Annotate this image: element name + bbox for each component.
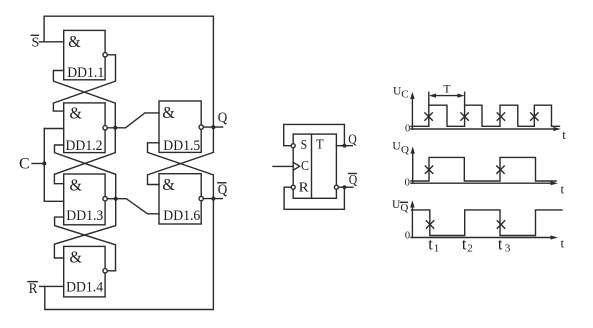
- svg-text:t: t: [462, 235, 467, 254]
- chart Uc label: [393, 85, 409, 100]
- svg-text:0: 0: [405, 231, 410, 242]
- svg-text:R: R: [299, 181, 310, 196]
- wire DD1.6 output to Q-bar: [203, 198, 222, 200]
- wire DD1.2 output down to DD1.3 input (cross): [54, 128, 115, 184]
- wire DD1.4 output stub: [107, 270, 115, 272]
- wire DD1.2 output up to DD1.1 input (cross): [53, 71, 115, 128]
- svg-text:&: &: [162, 103, 174, 122]
- wire C to DD1.3 input: [44, 200, 63, 202]
- node Q junction (T symbol): [343, 144, 347, 148]
- svg-text:t: t: [561, 182, 565, 197]
- chart Uc y-axis: [410, 92, 414, 129]
- chart Uqbar label overline: [400, 201, 407, 203]
- wire Q feedback to S: [284, 124, 345, 145]
- svg-text:DD1.6: DD1.6: [163, 208, 200, 224]
- gate DD1.5: [159, 101, 203, 154]
- gate DD1.2: [64, 103, 108, 154]
- pin C dynamic input triangle: [294, 163, 300, 170]
- svg-text:&: &: [70, 175, 82, 194]
- svg-text:Q: Q: [218, 182, 228, 198]
- svg-text:&: &: [70, 104, 82, 123]
- wire DD1.3 output stub: [107, 198, 115, 200]
- chart Uc x-mark 3: [497, 113, 504, 120]
- wire Q-bar up to DD1.5 input (cross): [148, 143, 214, 199]
- wire DD1.2 output to DD1.5 input: [115, 113, 159, 128]
- chart Uq x-mark 2: [497, 166, 504, 173]
- chart Uqbar y-axis: [410, 200, 414, 237]
- chart Uq waveform: [411, 157, 556, 181]
- wire Q output: [336, 145, 352, 147]
- svg-text:S: S: [32, 35, 40, 50]
- chart Uqbar x-axis: [411, 235, 558, 239]
- wire Q-bar output: [338, 186, 352, 188]
- gate DD1.1: [64, 30, 108, 81]
- svg-text:Q: Q: [349, 173, 358, 188]
- chart Uqbar waveform: [412, 210, 563, 236]
- T flip-flop U1 box: [293, 134, 336, 198]
- wire DD1.2 output stub: [107, 127, 115, 129]
- svg-text:T: T: [316, 138, 324, 153]
- wire Q-bar overline (T symbol): [349, 173, 357, 175]
- pin R inversion circle: [291, 185, 295, 189]
- wire Q-bar feedback to R: [284, 187, 344, 209]
- gate DD1.3: [64, 174, 108, 225]
- chart Uq x-axis: [411, 181, 558, 185]
- pin S inversion circle: [291, 144, 295, 148]
- wire top feedback Q to S input: [44, 16, 213, 127]
- svg-text:C: C: [19, 156, 30, 173]
- chart Uc period tick 1: [428, 92, 430, 105]
- svg-text:t: t: [561, 236, 565, 251]
- chart Uc waveform: [411, 105, 560, 126]
- svg-text:R: R: [29, 281, 38, 297]
- svg-text:2: 2: [467, 242, 473, 254]
- node t3 label: [498, 235, 511, 255]
- node Q-bar junction: [211, 197, 215, 201]
- svg-text:&: &: [70, 248, 82, 267]
- node DD1.3 output junction: [114, 197, 118, 201]
- chart Uq x-mark 1: [425, 166, 432, 173]
- node t2 label: [462, 235, 473, 255]
- chart Uqbar x-mark 1: [426, 221, 433, 228]
- wire DD1.1 output to DD1.2 input (cross): [53, 55, 115, 111]
- svg-text:&: &: [162, 175, 174, 194]
- svg-text:t: t: [428, 235, 433, 254]
- svg-text:T: T: [443, 82, 451, 96]
- svg-text:&: &: [68, 32, 80, 51]
- wire R-bar overline: [28, 281, 37, 283]
- chart Uqbar x-mark 2: [497, 221, 504, 228]
- pin Q-bar inversion circle: [334, 185, 338, 189]
- wire C bus vertical: [43, 129, 45, 202]
- svg-text:t: t: [498, 235, 503, 254]
- svg-text:Q: Q: [218, 110, 228, 126]
- svg-text:S: S: [301, 138, 308, 153]
- wire DD1.3 output down to DD1.4 input (cross): [54, 199, 115, 258]
- wire DD1.3 output up to DD1.2 input (cross): [55, 145, 116, 199]
- svg-text:0: 0: [405, 178, 410, 189]
- node Q junction: [211, 125, 215, 129]
- svg-text:3: 3: [505, 242, 511, 254]
- node t1 label: [428, 235, 439, 255]
- svg-text:t: t: [562, 127, 566, 142]
- svg-text:C: C: [301, 158, 309, 173]
- chart Uc period tick 2: [464, 92, 466, 105]
- wire C input: [273, 165, 293, 167]
- chart Uc x-axis: [411, 127, 561, 131]
- wire C input stub: [32, 163, 44, 165]
- wire S-bar input stub: [40, 41, 64, 43]
- node C junction: [42, 162, 46, 166]
- wire S-bar overline: [31, 34, 38, 36]
- svg-text:C: C: [401, 89, 408, 101]
- svg-text:DD1.1: DD1.1: [67, 65, 104, 81]
- chart Uc x-mark 4: [531, 113, 538, 120]
- chart Uq y-axis: [411, 146, 415, 183]
- wire R-bar input stub: [40, 285, 64, 287]
- gate DD1.4: [64, 246, 108, 297]
- node Q-bar junction (T symbol): [343, 185, 347, 189]
- wire bottom feedback Q-bar to R input: [45, 199, 214, 310]
- wire Q down to DD1.6 input (cross): [148, 127, 214, 184]
- svg-text:Q: Q: [348, 133, 357, 148]
- chart Uc period arrow: [429, 94, 465, 98]
- wire DD1.4 output up to DD1.3 input (cross): [55, 217, 116, 271]
- svg-text:DD1.5: DD1.5: [163, 138, 200, 154]
- svg-text:DD1.3: DD1.3: [66, 208, 103, 224]
- wire C to DD1.2 input: [44, 128, 63, 130]
- chart Uqbar label: [392, 199, 408, 214]
- node DD1.2 output junction: [113, 126, 117, 130]
- chart Uq label: [392, 141, 409, 156]
- chart Uc x-mark 2: [461, 113, 468, 120]
- svg-text:1: 1: [434, 242, 440, 254]
- svg-text:Q: Q: [400, 202, 408, 214]
- svg-text:DD1.4: DD1.4: [66, 280, 104, 296]
- svg-text:0: 0: [405, 123, 410, 134]
- wire Q-bar overline: [218, 182, 226, 184]
- svg-text:DD1.2: DD1.2: [66, 138, 103, 154]
- wire DD1.5 output to Q: [203, 126, 222, 128]
- chart Uc x-mark 1: [425, 113, 432, 120]
- gate DD1.6: [159, 174, 203, 224]
- svg-text:Q: Q: [401, 144, 409, 156]
- wire DD1.3 output to DD1.6 input: [116, 199, 159, 214]
